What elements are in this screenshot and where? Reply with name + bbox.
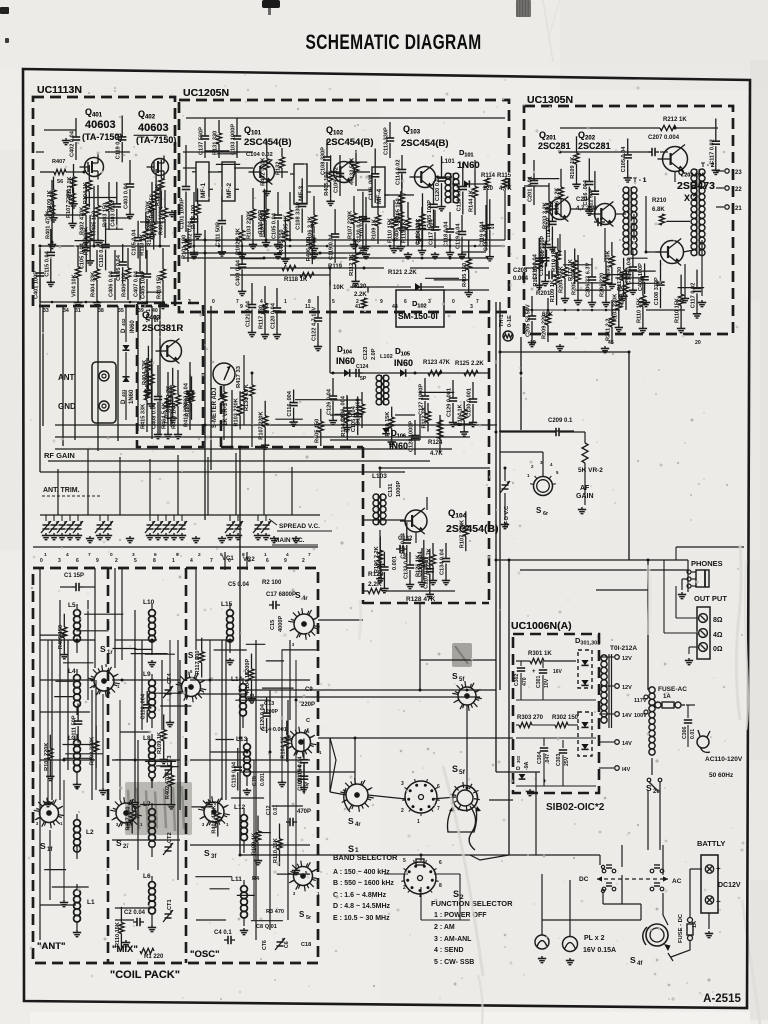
svg-text:12V: 12V [622, 685, 632, 691]
svg-text:1r: 1r [107, 650, 113, 656]
svg-text:C124: C124 [356, 364, 369, 370]
svg-text:7: 7 [236, 299, 239, 305]
svg-text:UC1006N(A): UC1006N(A) [511, 620, 572, 632]
svg-text:C402 0.04: C402 0.04 [70, 130, 76, 157]
svg-text:L4: L4 [68, 668, 76, 675]
svg-text:AC110-120V: AC110-120V [705, 756, 743, 763]
svg-text:A-2515: A-2515 [703, 993, 741, 1005]
svg-text:S: S [100, 644, 106, 654]
svg-text:R125 2.2K: R125 2.2K [455, 361, 484, 367]
svg-text:402: 402 [121, 318, 126, 326]
svg-text:C401 100P: C401 100P [34, 271, 40, 299]
svg-text:PHONES: PHONES [691, 559, 723, 568]
svg-text:R406 100: R406 100 [306, 237, 312, 261]
svg-text:MF-4: MF-4 [376, 188, 383, 204]
svg-text:5: 5 [332, 299, 335, 305]
svg-text:6: 6 [154, 552, 157, 558]
svg-text:C405 100P: C405 100P [141, 271, 147, 299]
svg-text:C110 0.04: C110 0.04 [456, 185, 462, 211]
svg-text:33: 33 [43, 308, 49, 314]
svg-text:R109 1K: R109 1K [372, 219, 378, 241]
svg-text:10K: 10K [333, 285, 345, 291]
svg-text:T0l-212A: T0l-212A [610, 645, 637, 652]
svg-text:R110 15K: R110 15K [675, 298, 681, 323]
svg-text:T - 1: T - 1 [633, 177, 647, 184]
svg-text:C109 0.02: C109 0.02 [334, 167, 340, 193]
svg-text:C114 0.02: C114 0.02 [396, 159, 402, 185]
svg-text:"ANT": "ANT" [37, 941, 66, 952]
svg-text:L11: L11 [231, 876, 242, 883]
svg-text:I4V: I4V [622, 767, 631, 773]
svg-text:"COIL PACK": "COIL PACK" [110, 969, 180, 981]
svg-text:S: S [348, 816, 354, 826]
svg-text:ANT: ANT [58, 373, 75, 382]
svg-text:+: + [716, 864, 721, 873]
svg-text:5f: 5f [459, 769, 466, 776]
svg-text:R107 220K: R107 220K [348, 211, 354, 239]
svg-text:35: 35 [118, 308, 124, 314]
svg-text:+: + [532, 669, 536, 675]
svg-text:"MIX": "MIX" [112, 944, 138, 955]
svg-text:C105 0.04: C105 0.04 [272, 212, 278, 239]
svg-text:L5: L5 [68, 602, 76, 609]
svg-text:3: 3 [58, 558, 61, 564]
svg-text:3: 3 [401, 781, 404, 787]
svg-text:R113 1K: R113 1K [67, 177, 73, 199]
svg-text:DC: DC [579, 876, 589, 883]
svg-text:5: 5 [220, 552, 223, 558]
svg-text:C121 0.04: C121 0.04 [246, 300, 252, 327]
svg-text:R109 1K: R109 1K [570, 157, 576, 179]
svg-text:C101 1000P: C101 1000P [180, 198, 186, 229]
svg-text:25V: 25V [564, 756, 570, 766]
svg-text:470P: 470P [297, 809, 311, 815]
svg-text:C303: C303 [556, 753, 562, 766]
svg-text:9: 9 [284, 558, 287, 564]
svg-text:8: 8 [308, 299, 311, 305]
svg-text:IN60: IN60 [389, 441, 408, 451]
svg-text:R107 220K: R107 220K [147, 218, 153, 246]
svg-text:1: 1 [172, 558, 175, 564]
svg-text:E : 10.5 ~ 30 MHz: E : 10.5 ~ 30 MHz [333, 915, 390, 922]
svg-text:R404 33K: R404 33K [91, 272, 97, 297]
svg-text:IN60: IN60 [336, 356, 355, 366]
svg-text:R121 2.2K: R121 2.2K [388, 270, 417, 276]
svg-text:C120 0.04: C120 0.04 [435, 174, 441, 201]
svg-text:16V 0.15A: 16V 0.15A [583, 947, 616, 954]
svg-text:L102: L102 [380, 354, 393, 360]
svg-text:2 : AM: 2 : AM [434, 924, 455, 931]
svg-text:(TA-7150): (TA-7150) [136, 135, 176, 145]
svg-text:2: 2 [302, 558, 305, 564]
svg-text:T - 2: T - 2 [701, 162, 715, 169]
svg-text:RF GAIN: RF GAIN [44, 451, 75, 460]
svg-text:PL x 2: PL x 2 [584, 935, 605, 942]
svg-text:C119 0.04: C119 0.04 [329, 234, 335, 260]
svg-text:C108 330P: C108 330P [296, 202, 302, 230]
svg-text:7: 7 [476, 299, 479, 305]
svg-text:4: 4 [260, 299, 263, 305]
svg-text:R104 1K: R104 1K [245, 671, 251, 693]
svg-text:4000P: 4000P [278, 616, 284, 632]
svg-text:L101: L101 [441, 159, 455, 165]
svg-text:D: D [516, 766, 522, 770]
svg-text:R106 2.2K: R106 2.2K [555, 188, 561, 215]
svg-text:C6: C6 [284, 941, 290, 948]
svg-text:L13: L13 [236, 736, 248, 743]
svg-text:2SC281: 2SC281 [538, 141, 571, 151]
svg-text:C301: C301 [536, 675, 542, 688]
svg-text:C405 100P: C405 100P [427, 200, 433, 228]
svg-text:0.004: 0.004 [513, 276, 529, 282]
svg-text:R115: R115 [497, 173, 512, 179]
svg-text:C306: C306 [682, 726, 688, 739]
svg-text:R3 470: R3 470 [266, 909, 284, 915]
svg-text:3: 3 [132, 552, 135, 558]
svg-text:C407 0.04: C407 0.04 [134, 270, 140, 297]
svg-text:C116 .004: C116 .004 [141, 693, 147, 719]
svg-text:"OSC": "OSC" [190, 949, 220, 960]
svg-text:C111 50P: C111 50P [258, 210, 264, 235]
svg-text:C105 0.04: C105 0.04 [298, 764, 304, 791]
svg-text:IN60: IN60 [130, 320, 136, 333]
svg-text:L2: L2 [86, 829, 94, 836]
svg-text:1000P: 1000P [396, 481, 402, 497]
svg-text:CT1: CT1 [167, 899, 173, 910]
svg-text:0Ω: 0Ω [713, 646, 723, 653]
svg-text:SIB02-OIC*2: SIB02-OIC*2 [546, 802, 605, 813]
svg-text:R109 1K: R109 1K [157, 732, 163, 754]
svg-text:7: 7 [210, 558, 213, 564]
svg-text:IN60: IN60 [394, 358, 413, 368]
svg-text:S: S [630, 955, 636, 965]
svg-text:6: 6 [437, 784, 440, 790]
svg-text:C110 0.04: C110 0.04 [99, 241, 105, 267]
svg-text:AC: AC [672, 878, 682, 885]
svg-text:L15: L15 [221, 601, 233, 608]
svg-text:2: 2 [401, 808, 404, 814]
svg-text:C12: C12 [266, 805, 272, 815]
svg-text:R402 470K: R402 470K [260, 158, 266, 186]
svg-text:R407: R407 [52, 159, 65, 165]
svg-text:R110 15K: R110 15K [636, 298, 642, 323]
svg-text:UC1113N: UC1113N [37, 84, 82, 96]
svg-text:0: 0 [212, 299, 215, 305]
svg-text:8: 8 [242, 552, 245, 558]
svg-text:3 : AM-ANL: 3 : AM-ANL [434, 936, 472, 943]
svg-text:C105 0.04: C105 0.04 [116, 254, 122, 281]
svg-text:L1: L1 [87, 899, 95, 906]
svg-text:MF-2: MF-2 [226, 182, 233, 198]
svg-text:303: 303 [516, 755, 521, 763]
svg-text:3: 3 [470, 304, 473, 310]
svg-text:4,7K: 4,7K [499, 186, 512, 192]
svg-text:MF-1: MF-1 [200, 182, 207, 198]
svg-text:R303 270: R303 270 [517, 715, 544, 721]
svg-text:A : 150 ~ 400 kHz: A : 150 ~ 400 kHz [333, 869, 390, 876]
svg-text:R201: R201 [536, 291, 551, 297]
svg-text:1: 1 [417, 819, 420, 825]
svg-text:C403 0.04: C403 0.04 [110, 200, 116, 227]
svg-text:C126 0.04: C126 0.04 [327, 388, 333, 415]
svg-text:C120 0.04: C120 0.04 [271, 302, 277, 329]
svg-text:45: 45 [608, 340, 614, 346]
svg-text:1: 1 [284, 299, 287, 305]
svg-text:R113 1K: R113 1K [568, 259, 574, 281]
svg-text:8: 8 [153, 558, 156, 564]
svg-text:C119 0.04: C119 0.04 [231, 761, 237, 787]
svg-text:R103 220K: R103 220K [90, 737, 96, 765]
svg-text:X 2: X 2 [684, 193, 698, 203]
svg-text:7: 7 [88, 552, 91, 558]
svg-text:GAIN: GAIN [576, 493, 594, 500]
svg-text:C2 0.04: C2 0.04 [124, 910, 146, 916]
svg-text:14V: 14V [622, 713, 632, 719]
svg-text:R144 1K: R144 1K [469, 190, 475, 212]
svg-text:R405 150: R405 150 [314, 419, 320, 443]
svg-text:SM-150-0l: SM-150-0l [398, 311, 438, 321]
svg-text:0: 0 [40, 558, 43, 564]
svg-text:C5 0.04: C5 0.04 [228, 582, 250, 588]
svg-text:2SC454(B): 2SC454(B) [401, 138, 449, 149]
svg-text:R101 100: R101 100 [182, 235, 188, 259]
svg-text:R123 47K: R123 47K [423, 360, 451, 366]
svg-text:GND: GND [58, 402, 76, 411]
svg-text:SCHEMATIC DIAGRAM: SCHEMATIC DIAGRAM [305, 30, 481, 54]
svg-text:C15: C15 [270, 620, 276, 630]
svg-text:VC2: VC2 [243, 557, 255, 563]
svg-text:C406 0.04: C406 0.04 [109, 270, 115, 297]
svg-text:2.0P: 2.0P [371, 348, 377, 360]
svg-text:C206 33 6.3V: C206 33 6.3V [586, 263, 592, 297]
svg-text:C403 0.04: C403 0.04 [236, 259, 242, 286]
svg-text:C122 4,7 10V: C122 4,7 10V [312, 307, 318, 341]
svg-text:3: 3 [188, 299, 191, 305]
svg-text:8: 8 [439, 883, 442, 889]
svg-text:R110 15K: R110 15K [551, 247, 557, 272]
svg-text:S: S [453, 889, 459, 899]
svg-text:CT2: CT2 [167, 832, 173, 843]
svg-text:VR4 10K: VR4 10K [72, 274, 78, 297]
svg-text:2SC454(B): 2SC454(B) [244, 137, 292, 148]
svg-text:C117 0.02: C117 0.02 [709, 139, 715, 165]
svg-text:L10: L10 [143, 599, 155, 606]
svg-text:0.001: 0.001 [260, 773, 266, 786]
svg-text:C18: C18 [301, 942, 311, 948]
svg-text:L6: L6 [143, 873, 151, 880]
svg-text:40: 40 [152, 308, 158, 314]
svg-text:44: 44 [392, 304, 398, 310]
svg-text:C117 0.02: C117 0.02 [691, 283, 697, 309]
svg-text:C111 50P: C111 50P [588, 188, 594, 213]
svg-text:R124: R124 [428, 440, 443, 446]
svg-text:R410 150: R410 150 [157, 275, 163, 299]
svg-text:C201 0.01: C201 0.01 [528, 176, 534, 202]
svg-text:R104 1K: R104 1K [83, 182, 89, 204]
svg-text:R118 1K: R118 1K [284, 277, 308, 283]
svg-text:R104 1K: R104 1K [458, 404, 464, 426]
svg-text:DC12V: DC12V [718, 882, 741, 889]
svg-text:7: 7 [308, 552, 311, 558]
svg-text:6: 6 [76, 558, 79, 564]
svg-text:C105 0.04: C105 0.04 [132, 229, 138, 256]
svg-text:R417 33: R417 33 [236, 365, 242, 388]
svg-text:R117 330: R117 330 [126, 807, 132, 831]
svg-text:C1 15P: C1 15P [64, 573, 84, 579]
svg-text:C111 50P: C111 50P [215, 222, 221, 247]
svg-text:UC1305N: UC1305N [527, 94, 573, 106]
svg-text:0-1E: 0-1E [507, 315, 513, 327]
svg-text:OUT PUT: OUT PUT [694, 594, 727, 603]
svg-text:2SC381R: 2SC381R [142, 323, 183, 334]
svg-text:R112 1K: R112 1K [349, 254, 355, 276]
svg-text:1N60: 1N60 [129, 389, 135, 404]
svg-text:22: 22 [735, 187, 742, 193]
svg-text:SPREAD V.C.: SPREAD V.C. [279, 523, 320, 530]
svg-text:UC1205N: UC1205N [183, 87, 229, 99]
svg-text:5: 5 [403, 858, 406, 864]
svg-text:C111 50P: C111 50P [72, 715, 78, 740]
svg-text:5 : CW- SSB: 5 : CW- SSB [434, 959, 474, 966]
svg-text:S: S [299, 910, 305, 919]
svg-text:C205 53 50V: C205 53 50V [526, 304, 532, 337]
svg-text:401: 401 [121, 389, 126, 397]
svg-text:3: 3 [428, 299, 431, 305]
svg-text:9: 9 [96, 558, 99, 564]
svg-text:40603: 40603 [85, 119, 116, 131]
svg-text:20: 20 [695, 340, 701, 346]
svg-text:C302: C302 [514, 673, 520, 686]
svg-text:R211 2.2: R211 2.2 [606, 319, 612, 341]
svg-text:R406 100: R406 100 [394, 217, 400, 241]
svg-text:R301 1K: R301 1K [528, 651, 552, 657]
svg-text:0: 0 [110, 552, 113, 558]
svg-text:C207 0.004: C207 0.004 [648, 135, 680, 141]
svg-text:7: 7 [437, 806, 440, 812]
svg-text:R302 150: R302 150 [552, 715, 579, 721]
svg-text:470: 470 [522, 677, 528, 686]
svg-text:2: 2 [356, 299, 359, 305]
svg-text:R117 330: R117 330 [617, 267, 623, 291]
svg-text:6: 6 [266, 558, 269, 564]
svg-text:B : 550 ~ 1600 kHz: B : 550 ~ 1600 kHz [333, 880, 394, 887]
svg-text:S: S [536, 506, 542, 515]
svg-text:S: S [452, 764, 458, 774]
svg-text:R103 220K: R103 220K [234, 398, 240, 426]
svg-text:R212 1K: R212 1K [663, 117, 687, 123]
svg-text:R209 220: R209 220 [542, 315, 548, 339]
svg-text:VC1: VC1 [222, 556, 234, 562]
svg-text:C115 0.04: C115 0.04 [44, 250, 50, 276]
svg-text:6: 6 [439, 860, 442, 866]
svg-text:4Ω: 4Ω [713, 632, 723, 639]
svg-text:C111 50P: C111 50P [546, 217, 552, 242]
svg-text:AF: AF [580, 485, 590, 492]
svg-text:C208: C208 [513, 268, 528, 274]
svg-text:10V: 10V [544, 678, 550, 688]
svg-text:C116 .004: C116 .004 [287, 390, 293, 416]
svg-text:C304: C304 [537, 751, 543, 764]
svg-text:R405 150: R405 150 [150, 194, 156, 218]
svg-text:4: 4 [190, 558, 193, 564]
svg-text:S: S [204, 848, 210, 858]
svg-text:2SC454(B): 2SC454(B) [446, 523, 499, 535]
svg-text:R204 5.6K: R204 5.6K [559, 266, 565, 293]
svg-text:6r: 6r [543, 511, 549, 517]
svg-text:5K VR-2: 5K VR-2 [578, 467, 603, 474]
svg-text:2: 2 [403, 885, 406, 891]
svg-text:R404 33K: R404 33K [142, 360, 148, 385]
svg-text:5P: 5P [360, 376, 367, 382]
svg-text:9: 9 [176, 552, 179, 558]
svg-text:C123: C123 [363, 347, 369, 360]
svg-text:C119 0.04: C119 0.04 [456, 223, 462, 249]
svg-text:R104 1K: R104 1K [280, 737, 286, 759]
svg-text:4 : SEND: 4 : SEND [434, 947, 464, 954]
svg-text:R103 220K: R103 220K [247, 211, 253, 239]
svg-text:C115 0.04: C115 0.04 [400, 532, 406, 558]
svg-text:220P: 220P [301, 702, 315, 708]
svg-text:R102 2.2K: R102 2.2K [236, 228, 242, 255]
svg-text:C116 .004: C116 .004 [369, 174, 375, 200]
svg-text:1: 1 [264, 552, 267, 558]
svg-text:L9: L9 [143, 671, 151, 678]
svg-text:2: 2 [198, 552, 201, 558]
svg-text:2SC281: 2SC281 [578, 141, 611, 151]
svg-text:R402 470K: R402 470K [211, 805, 217, 833]
svg-text:4.7K: 4.7K [430, 451, 443, 457]
svg-text:R103 220K: R103 220K [612, 294, 618, 322]
svg-text:C115 0.04: C115 0.04 [483, 225, 489, 251]
svg-text:5: 5 [134, 558, 137, 564]
svg-text:R405 150: R405 150 [324, 172, 330, 196]
svg-text:0.01: 0.01 [690, 729, 696, 739]
svg-text:FUSE - DC: FUSE - DC [678, 913, 684, 943]
svg-text:C104 0.02: C104 0.02 [246, 152, 273, 158]
svg-text:C209 0.1: C209 0.1 [548, 418, 573, 424]
svg-text:5r: 5r [306, 915, 312, 921]
svg-text:C105 0.04: C105 0.04 [351, 405, 357, 432]
svg-text:C108 330P: C108 330P [321, 147, 327, 175]
svg-text:34: 34 [63, 308, 69, 314]
svg-text:R405 150: R405 150 [462, 263, 468, 287]
svg-text:R110 15K: R110 15K [273, 838, 279, 863]
svg-text:R106 2.2K: R106 2.2K [166, 386, 172, 413]
svg-text:FUSE-AC: FUSE-AC [658, 686, 687, 693]
svg-text:9: 9 [240, 304, 243, 310]
svg-text:31: 31 [75, 308, 81, 314]
svg-text:C110 0.04: C110 0.04 [423, 563, 429, 589]
svg-text:R103 220K: R103 220K [44, 743, 50, 771]
svg-text:6: 6 [404, 299, 407, 305]
svg-text:C4 0.1: C4 0.1 [214, 930, 232, 936]
svg-text:2SC454(B): 2SC454(B) [326, 137, 374, 148]
svg-text:C120 0.04: C120 0.04 [260, 703, 266, 730]
svg-text:2.2K: 2.2K [354, 292, 367, 298]
svg-text:S: S [40, 841, 46, 851]
svg-text:R103 220K: R103 220K [84, 227, 90, 255]
svg-text:C405 100P: C405 100P [638, 263, 644, 291]
svg-text:R2 100: R2 100 [262, 580, 282, 586]
svg-text:4r: 4r [355, 822, 361, 828]
svg-text:C: C [306, 718, 310, 724]
svg-text:R405 150: R405 150 [279, 229, 285, 253]
svg-text:1 : POWER OFF: 1 : POWER OFF [434, 912, 487, 919]
svg-text:1N60: 1N60 [457, 160, 480, 171]
svg-text:S: S [452, 671, 458, 681]
svg-text:R210: R210 [652, 198, 667, 204]
svg-text:R109 1K: R109 1K [47, 190, 53, 212]
